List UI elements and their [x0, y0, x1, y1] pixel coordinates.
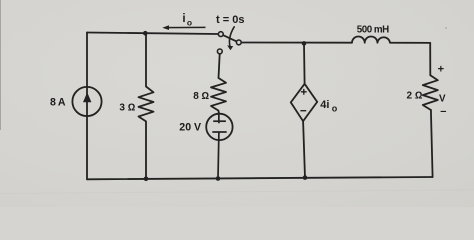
svg-text:t = 0s: t = 0s [216, 14, 244, 26]
svg-text:8 Ω: 8 Ω [193, 91, 209, 102]
svg-text:20 V: 20 V [179, 122, 201, 134]
svg-text:o: o [187, 18, 192, 28]
svg-text:–: – [440, 106, 446, 118]
svg-text:o: o [332, 103, 338, 113]
svg-text:+: + [438, 64, 444, 76]
svg-text:2 Ω: 2 Ω [407, 90, 423, 101]
svg-text:3 Ω: 3 Ω [119, 102, 135, 113]
svg-text:4i: 4i [320, 99, 329, 111]
svg-text:8 A: 8 A [50, 96, 66, 108]
svg-text:500 mH: 500 mH [357, 24, 389, 35]
svg-text:i: i [182, 13, 185, 25]
svg-text:V: V [439, 93, 446, 104]
